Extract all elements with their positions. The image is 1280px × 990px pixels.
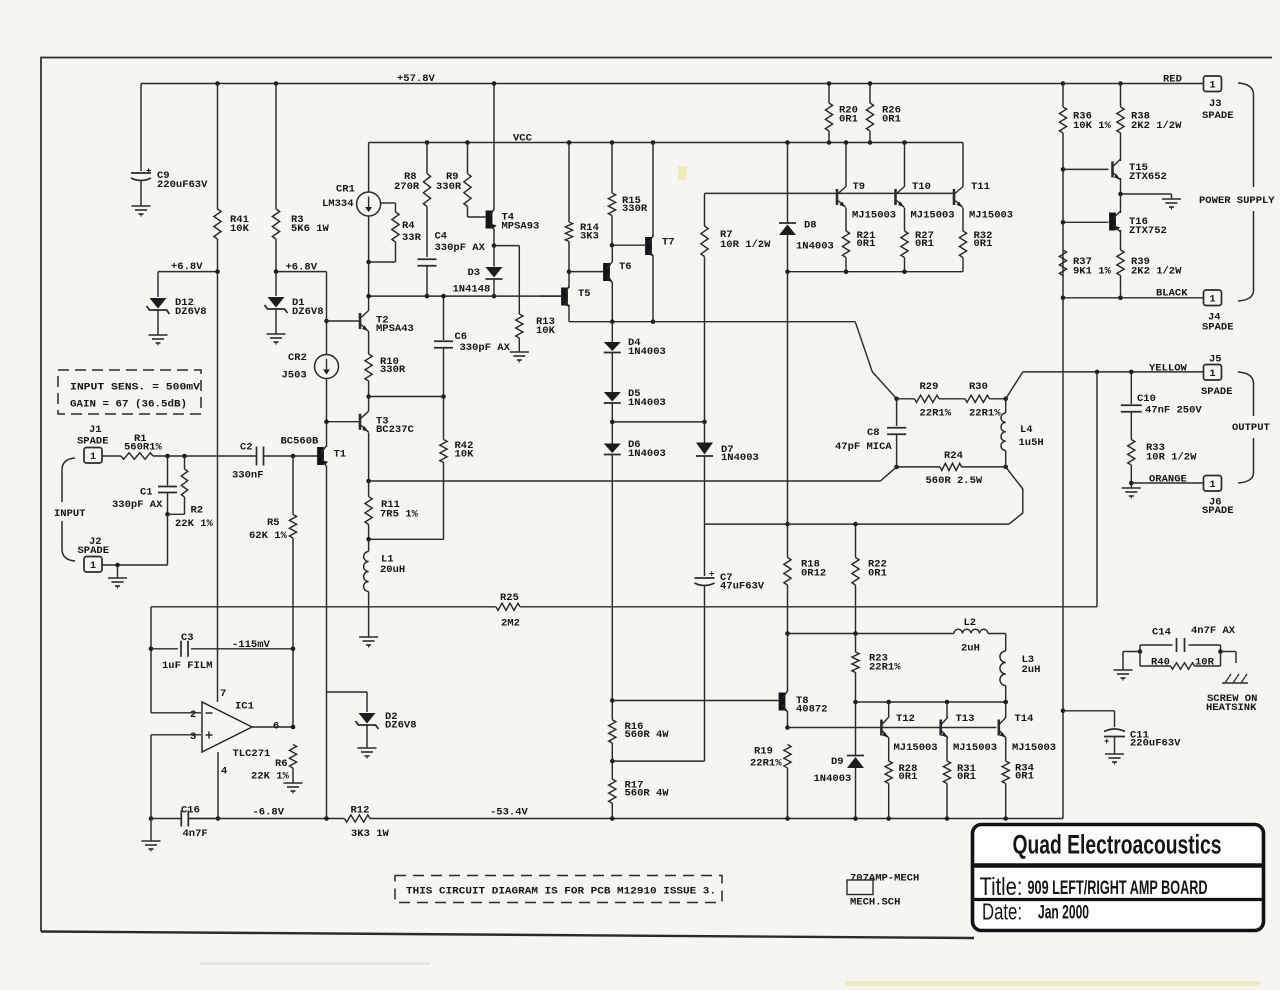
svg-text:C10: C10 [1137,393,1156,405]
svg-text:+: + [146,167,151,177]
wire T3 collector [368,397,370,412]
resistor R8 [394,143,431,207]
capacitor C2 [232,442,264,482]
svg-text:R6: R6 [275,758,288,770]
svg-text:560R 2.5W: 560R 2.5W [926,475,983,487]
svg-text:1: 1 [1209,81,1215,92]
svg-text:R24: R24 [944,450,963,462]
svg-text:LM334: LM334 [322,198,354,210]
svg-text:330R: 330R [436,181,462,193]
svg-text:2uH: 2uH [1022,664,1041,676]
resistor R33 [1128,440,1197,486]
svg-text:T10: T10 [912,181,931,193]
wire feedback column from YELLOW [1096,372,1098,607]
svg-text:10K: 10K [230,223,250,235]
svg-text:J5: J5 [1209,354,1222,366]
svg-text:22R1%: 22R1% [750,758,782,770]
diode D7 [696,422,759,524]
svg-text:10R 1/2W: 10R 1/2W [720,239,771,251]
svg-text:22K 1%: 22K 1% [251,771,290,783]
net +6.8V (left) wire [158,261,220,274]
svg-text:0R12: 0R12 [801,568,826,580]
ground (J2) [108,565,127,589]
svg-text:2K2 1/2W: 2K2 1/2W [1131,120,1182,132]
resistor R14 [565,143,599,243]
svg-text:R40: R40 [1151,657,1170,669]
svg-text:22R1%: 22R1% [920,408,952,420]
svg-text:-115mV: -115mV [232,639,271,651]
svg-text:0R1: 0R1 [915,238,934,250]
svg-text:0R1: 0R1 [839,114,858,126]
resistor R36 [1059,84,1111,134]
node dots on +57.8V rail [215,81,1123,86]
svg-text:560R 4W: 560R 4W [625,788,670,800]
svg-text:T11: T11 [971,181,990,193]
resistor R29 [897,381,952,420]
svg-text:BC560B: BC560B [281,436,320,448]
wire BLACK [1063,288,1204,301]
wire YELLOW output [1006,363,1203,399]
svg-text:2uH: 2uH [961,643,980,655]
svg-text:SPADE: SPADE [1202,322,1234,334]
wire R10 to node [366,381,371,399]
faint scan smudge bottom right [200,166,1260,986]
diode D3 1N4148 [453,246,503,299]
capacitor C7 [695,524,765,761]
ground (D12) [149,335,168,346]
svg-text:330nF: 330nF [232,470,264,482]
diode D6 [604,403,666,460]
svg-text:BLACK: BLACK [1156,288,1188,300]
svg-text:47uF63V: 47uF63V [720,581,765,593]
wire D8 column down to output stage [785,272,790,527]
wire R3 column [275,84,277,272]
svg-text:1: 1 [90,561,96,572]
svg-text:R12: R12 [351,805,370,817]
spade J4 [1202,290,1234,334]
wire C7 bottom to R16/R17 node [610,759,705,764]
transistor T1 BC560B [281,436,347,467]
resistor R32 [959,208,992,272]
svg-text:560R 4W: 560R 4W [625,729,670,741]
svg-text:GAIN = 67 (36.5dB): GAIN = 67 (36.5dB) [70,399,187,411]
op-amp IC1 TLC271 [190,688,279,778]
wire T16 base [1063,221,1109,223]
svg-text:MJ15003: MJ15003 [1012,742,1056,754]
svg-text:R19: R19 [754,746,773,758]
capacitor C9 [131,84,208,207]
svg-text:707AMP-MECH: 707AMP-MECH [850,873,919,885]
svg-text:C14: C14 [1152,627,1171,639]
ground (C9) [132,206,151,217]
svg-text:ZTX752: ZTX752 [1129,225,1167,237]
wire BLACK/-53.4V column [1061,298,1066,819]
svg-text:330pF AX: 330pF AX [460,342,511,354]
wire op-amp pin3 input [149,735,201,821]
resistor R10 [365,354,406,381]
ground (D1) [267,334,286,345]
svg-text:J503: J503 [282,370,307,382]
svg-text:INPUT SENS. = 500mV: INPUT SENS. = 500mV [70,382,201,394]
svg-text:MJ15003: MJ15003 [969,210,1013,222]
svg-text:DZ6V8: DZ6V8 [385,720,417,732]
svg-text:ZTX652: ZTX652 [1129,171,1167,183]
resistor R3 [272,209,329,239]
spade J2 [78,536,110,572]
svg-text:T13: T13 [956,713,975,725]
spade J6 [1202,476,1234,518]
svg-text:4: 4 [221,766,227,778]
wire +57.8V rail [141,83,1203,85]
wire T15 base [1063,168,1109,170]
svg-text:MJ15003: MJ15003 [953,742,997,754]
capacitor C8 [835,397,906,470]
wire ORANGE [1131,474,1203,486]
capacitor C4 [418,207,486,297]
bracket INPUT [54,458,86,561]
ground (pin3/C16) [142,819,161,852]
svg-text:R29: R29 [920,381,939,393]
svg-text:C1: C1 [140,487,153,499]
resistor R18 [784,524,826,633]
svg-text:0R1: 0R1 [868,568,887,580]
svg-text:INPUT: INPUT [54,508,86,520]
svg-text:MPSA43: MPSA43 [376,323,414,335]
resistor R34 [1002,761,1034,819]
svg-text:1: 1 [1209,295,1215,306]
svg-text:1N4003: 1N4003 [814,773,852,785]
wire J2 branch [102,514,168,567]
spade J1 [77,424,109,463]
resistor R1 [102,433,163,459]
svg-text:1N4003: 1N4003 [721,452,759,464]
ground (D2) [358,748,377,759]
svg-text:Date:: Date: [982,899,1022,925]
bracket POWER SUPPLY [1199,83,1275,301]
svg-text:20uH: 20uH [380,564,405,576]
svg-text:SPADE: SPADE [77,436,109,448]
resistor R4 [369,203,422,262]
spade J5 [1201,354,1233,399]
wire op-amp pin2 input [149,607,201,713]
svg-text:1uF FILM: 1uF FILM [162,660,212,672]
wire T1 lower column to -6.8V rail [326,466,328,819]
capacitor C3 [151,632,295,672]
svg-text:R30: R30 [969,381,988,393]
inductor L3 [1000,634,1040,703]
transistor T15 ZTX652 [1113,133,1167,196]
svg-text:T9: T9 [853,181,866,193]
svg-text:1N4003: 1N4003 [628,397,666,409]
svg-text:D9: D9 [831,756,844,768]
svg-text:+6.8V: +6.8V [171,261,203,273]
wire C2 to T1 base [264,454,318,459]
node dots on VCC rail [425,140,907,145]
svg-text:C2: C2 [240,442,253,454]
transistor T8 40872 [779,634,828,730]
svg-text:SPADE: SPADE [1202,505,1234,517]
capacitor C14 / resistor R40 network [1123,625,1236,669]
svg-text:R5: R5 [267,517,280,529]
diode D9 [814,702,865,819]
svg-text:10K: 10K [536,325,556,337]
note box PCB issue [395,876,722,903]
svg-text:TLC271: TLC271 [233,748,271,760]
transistor T3 BC237C [360,411,415,436]
svg-text:4n7F AX: 4n7F AX [1191,625,1236,637]
resistor R30 [939,381,1008,420]
resistor R6 [251,745,297,784]
svg-text:D8: D8 [804,220,817,232]
svg-text:+57.8V: +57.8V [397,73,436,85]
ground (R13) [510,352,529,363]
ground (L1) [359,637,378,648]
svg-text:YELLOW: YELLOW [1149,363,1188,375]
svg-text:1N4003: 1N4003 [628,448,666,460]
svg-text:330pF AX: 330pF AX [435,242,486,254]
svg-text:-6.8V: -6.8V [253,807,285,819]
note box INPUT SENS / GAIN [58,370,201,414]
svg-text:Jan 2000: Jan 2000 [1038,903,1089,924]
wire D2 branch [327,691,368,693]
wire R41 column to op-amp pin7 [217,84,219,703]
heatsink screw symbol [1206,674,1257,714]
svg-text:C4: C4 [435,231,448,243]
svg-text:0R1: 0R1 [882,114,901,126]
transistor T13 MJ15003 [941,702,997,761]
svg-text:0R1: 0R1 [974,238,993,250]
node dots on -53.4V rail [610,816,1008,821]
resistor R5 [249,456,297,727]
svg-text:POWER SUPPLY: POWER SUPPLY [1199,195,1275,207]
svg-text:1: 1 [1209,369,1215,380]
svg-text:MPSA93: MPSA93 [502,221,540,233]
wire R9 to T4 base [468,207,486,218]
svg-text:220uF63V: 220uF63V [1130,738,1181,750]
resistor R2 [168,456,214,530]
svg-text:T1: T1 [334,449,347,461]
svg-text:BC237C: BC237C [376,424,415,436]
svg-text:10K: 10K [455,449,475,461]
wire emitter rail y272 [785,269,963,274]
wire T2 collector [368,296,370,310]
resistor R7 [701,193,771,422]
capacitor C10 [1121,372,1203,440]
svg-text:270R: 270R [394,181,420,193]
svg-text:T7: T7 [662,237,675,249]
wire T3 emitter [368,433,370,482]
wire R36 column [1061,133,1066,300]
svg-text:1N4148: 1N4148 [453,284,491,296]
diode D4 [604,322,666,358]
svg-text:22K 1%: 22K 1% [175,518,214,530]
transistor T2 MPSA43 [360,311,414,336]
svg-text:THIS CIRCUIT DIAGRAM IS FOR PC: THIS CIRCUIT DIAGRAM IS FOR PCB M12910 I… [406,886,716,898]
svg-text:10R: 10R [1195,657,1215,669]
wire T7 base [612,244,645,246]
resistor R28 [885,761,917,819]
wire op-amp output pin6 [252,725,295,730]
svg-text:HEATSINK: HEATSINK [1206,702,1257,714]
svg-text:0R1: 0R1 [1015,771,1034,783]
svg-text:2: 2 [190,709,196,721]
resistor R23 [852,634,901,705]
resistor R39 [1117,250,1182,298]
wire CR2 column from +6.8V [324,272,329,355]
wire bias line y481 [366,467,896,483]
net label +57.8V [397,73,436,85]
wire bias node y296 [366,294,562,299]
svg-text:10R 1/2W: 10R 1/2W [1146,452,1197,464]
resistor R20 [825,84,858,143]
svg-text:C3: C3 [181,632,194,644]
resistor R27 [901,208,934,272]
transistor T6 [603,245,632,322]
wire T12-T14 collector rail y702 [855,700,1009,705]
svg-text:5K6 1W: 5K6 1W [291,223,330,235]
resistor R11 [365,481,419,542]
capacitor C11 [1063,711,1181,754]
resistor R17 [609,761,670,818]
svg-text:+6.8V: +6.8V [286,262,318,274]
svg-text:R25: R25 [500,592,519,604]
resistor R19 [750,745,791,819]
resistor R15 [608,143,648,248]
resistor R42 [369,397,475,540]
svg-text:330R: 330R [622,203,648,215]
svg-text:SPADE: SPADE [1201,386,1233,398]
svg-text:C8: C8 [867,427,880,439]
svg-text:22R1%: 22R1% [869,662,901,674]
wire rail y633 with L2 [785,631,954,636]
ground (C11) [1105,754,1124,765]
svg-text:CR1: CR1 [336,184,355,196]
transistor T16 ZTX752 [1109,194,1167,250]
resistor R22 [852,524,887,633]
svg-text:0R1: 0R1 [899,771,918,783]
wire D-chain lower to R16 [610,455,615,720]
inductor L2 [954,617,1006,655]
svg-text:CR2: CR2 [288,352,307,364]
capacitor C16 [151,805,217,841]
wire output loop to rail y524 [1006,467,1023,524]
transistor T7 [645,143,675,322]
svg-text:330pF AX: 330pF AX [112,499,163,511]
resistor R25 [151,592,1097,630]
svg-text:MJ15003: MJ15003 [894,742,938,754]
capacitor C6 [434,294,511,399]
svg-text:T12: T12 [896,713,915,725]
svg-text:62K 1%: 62K 1% [249,530,288,542]
transistor T12 MJ15003 [881,702,937,761]
wire T6 base [569,271,603,273]
wire op-amp pin4 [216,752,221,821]
wire -6.8V rail [189,807,345,821]
resistor R41 [214,209,250,239]
svg-text:560R1%: 560R1% [124,442,163,454]
svg-text:1: 1 [90,452,96,463]
svg-text:9K1 1%: 9K1 1% [1073,266,1112,278]
wire T5 base [540,295,562,297]
svg-text:22R1%: 22R1% [969,408,1001,420]
svg-text:330R: 330R [380,364,406,376]
resistor R26 [866,84,901,143]
hierarchy block 707AMP-MECH [847,873,919,909]
wire CR2 to T1/T3 node [324,379,329,448]
resistor R16 [609,720,670,761]
diode D8 [779,143,834,272]
svg-text:ORANGE: ORANGE [1149,474,1187,486]
svg-text:R4: R4 [402,220,415,232]
wire output rail y322 [569,319,855,324]
current source CR2 J503 [282,352,339,382]
svg-text:T5: T5 [578,288,591,300]
transistor T4 MPSA93 [486,84,540,248]
svg-text:1: 1 [1209,480,1215,491]
svg-text:R2: R2 [191,505,204,517]
wire CR1 bottom [366,216,371,296]
svg-text:T14: T14 [1015,713,1034,725]
svg-text:Quad Electroacoustics: Quad Electroacoustics [1013,830,1222,860]
diode D5 [604,353,666,410]
svg-text:33R: 33R [402,232,422,244]
svg-text:7: 7 [220,688,226,700]
wire diagonal to C8 node [855,322,896,399]
capacitor C1 [112,456,177,517]
svg-text:L4: L4 [1020,424,1033,436]
svg-text:VCC: VCC [513,133,533,145]
transistor T11 MJ15003 [954,143,1013,222]
wire T8 base from R16 node [612,700,779,702]
resistor R21 [842,208,875,272]
transistor T14 MJ15003 [999,702,1056,761]
svg-text:220uF63V: 220uF63V [157,179,208,191]
title block [973,825,1264,931]
svg-text:MJ15003: MJ15003 [852,210,896,222]
wire input line [153,454,256,459]
svg-text:OUTPUT: OUTPUT [1232,422,1270,434]
svg-text:0R1: 0R1 [957,771,976,783]
zener D1 [265,272,324,334]
wire T3 base [327,421,359,423]
svg-text:3K3 1W: 3K3 1W [351,828,390,840]
svg-text:4n7F: 4n7F [183,828,208,840]
wire T2 emitter [368,332,370,355]
ground (ORANGE) [1122,483,1141,499]
transistor T9 MJ15003 [837,143,896,222]
spade J3 [1202,76,1234,122]
svg-text:L2: L2 [964,617,977,629]
svg-text:2M2: 2M2 [501,618,520,630]
svg-text:J1: J1 [89,424,102,436]
ground (R6) [284,783,303,794]
wire driver base line y194 [705,192,956,194]
svg-text:1N4003: 1N4003 [796,241,834,253]
svg-text:1u5H: 1u5H [1019,437,1044,449]
resistor R31 [943,761,976,819]
svg-text:MJ15003: MJ15003 [911,210,955,222]
svg-text:MECH.SCH: MECH.SCH [850,897,900,909]
svg-text:IC1: IC1 [235,701,254,713]
svg-text:-53.4V: -53.4V [490,807,529,819]
inductor L1 [364,539,406,637]
svg-text:2K2 1/2W: 2K2 1/2W [1131,266,1182,278]
wire T2 emitter node to C6 node [369,396,444,398]
svg-text:T6: T6 [619,261,632,273]
svg-text:DZ6V8: DZ6V8 [292,306,324,318]
svg-text:DZ6V8: DZ6V8 [175,306,207,318]
wire T2 base [327,320,359,322]
